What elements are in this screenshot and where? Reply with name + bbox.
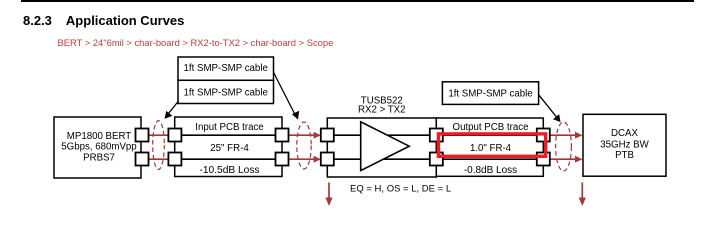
connector TUSB522/output shared row2 [430, 153, 443, 166]
dashed ellipse left connector pair [153, 121, 165, 170]
svg-text:EQ = H, OS = L, DE = L: EQ = H, OS = L, DE = L [350, 183, 451, 194]
connector TUSB522 left row1 [321, 129, 334, 142]
svg-text:Output PCB trace: Output PCB trace [453, 122, 529, 133]
connector TUSB522/output shared row1 [430, 129, 443, 142]
top rule [21, 0, 694, 2]
svg-text:-10.5dB Loss: -10.5dB Loss [199, 165, 259, 176]
wire: red link input board to TUSB522 (row2) [287, 158, 316, 160]
red down arrow below TUSB522 [328, 183, 330, 200]
diagram text [61, 63, 649, 194]
op-amp buffer triangle (TUSB522) [361, 122, 410, 171]
wire: red link BERT to input board (row1) [147, 135, 577, 159]
connector BERT out row2 [136, 153, 149, 166]
connector input board right row1 [276, 129, 289, 142]
wire: output box differential lines [436, 134, 543, 136]
connector output board right row1 [537, 129, 550, 142]
red signal-chain caption [58, 37, 334, 48]
arrowhead red into DCAX row1 [575, 132, 583, 139]
connector input board right row2 [276, 153, 289, 166]
cable box 3 (top right) [442, 82, 538, 105]
DCAX box [583, 114, 666, 176]
connector input board left row2 [168, 153, 181, 166]
svg-text:RX2 > TX2: RX2 > TX2 [358, 104, 405, 115]
TUSB522 box [327, 118, 436, 177]
arrowhead red into TUSB522 row2 [314, 156, 322, 163]
wire: TUSB522 internal lines [327, 134, 436, 136]
svg-text:35GHz BW: 35GHz BW [600, 139, 649, 150]
arrowhead red into TUSB522 row1 [314, 132, 322, 139]
wire: red link BERT to input board (row2) [147, 158, 170, 160]
output PCB trace box [436, 118, 543, 176]
connector output board right row2 [537, 153, 550, 166]
red highlight rectangle around 1.0" FR-4 row [439, 134, 546, 156]
cable box 1 (top left stack, upper) [178, 57, 274, 80]
svg-text:1.0" FR-4: 1.0" FR-4 [470, 143, 512, 154]
svg-text:Input PCB trace: Input PCB trace [195, 122, 263, 133]
wire: red link output board to DCAX (row2) [549, 158, 578, 160]
wire: red link input board to TUSB522 (row1) [287, 134, 316, 136]
arrowhead red into DCAX row2 [575, 156, 583, 163]
connector BERT out row1 [136, 129, 149, 142]
section heading 8.2.3 Application Curves [23, 13, 184, 28]
svg-text:-0.8dB Loss: -0.8dB Loss [464, 165, 517, 176]
black arrow cable box to left ellipse [167, 101, 179, 116]
black arrow cable box to middle ellipse [274, 73, 296, 117]
connector input board left row1 [168, 129, 181, 142]
svg-text:DCAX: DCAX [611, 128, 638, 139]
BERT box [54, 117, 141, 178]
svg-text:1ft SMP-SMP cable: 1ft SMP-SMP cable [184, 87, 268, 98]
svg-text:PTB: PTB [615, 150, 634, 161]
dashed ellipse middle connector pair [297, 122, 311, 169]
svg-text:MP1800 BERT: MP1800 BERT [67, 131, 132, 142]
black arrow cable box to right ellipse [539, 95, 559, 120]
input PCB trace box [175, 117, 282, 177]
red down arrow below DCAX [581, 183, 583, 200]
svg-text:25" FR-4: 25" FR-4 [210, 143, 249, 154]
svg-text:1ft SMP-SMP cable: 1ft SMP-SMP cable [184, 63, 268, 74]
svg-text:5Gbps, 680mVpp: 5Gbps, 680mVpp [61, 142, 136, 153]
svg-text:PRBS7: PRBS7 [83, 153, 115, 164]
wire: input box differential lines [175, 135, 544, 159]
dashed ellipse right connector pair [556, 122, 572, 171]
svg-text:1ft SMP-SMP cable: 1ft SMP-SMP cable [448, 89, 532, 100]
wire: red link output board to DCAX (row1) [549, 134, 578, 136]
connector squares [136, 129, 550, 166]
cable box 2 (top left stack, lower) [178, 80, 274, 103]
connector TUSB522 left row2 [321, 153, 334, 166]
